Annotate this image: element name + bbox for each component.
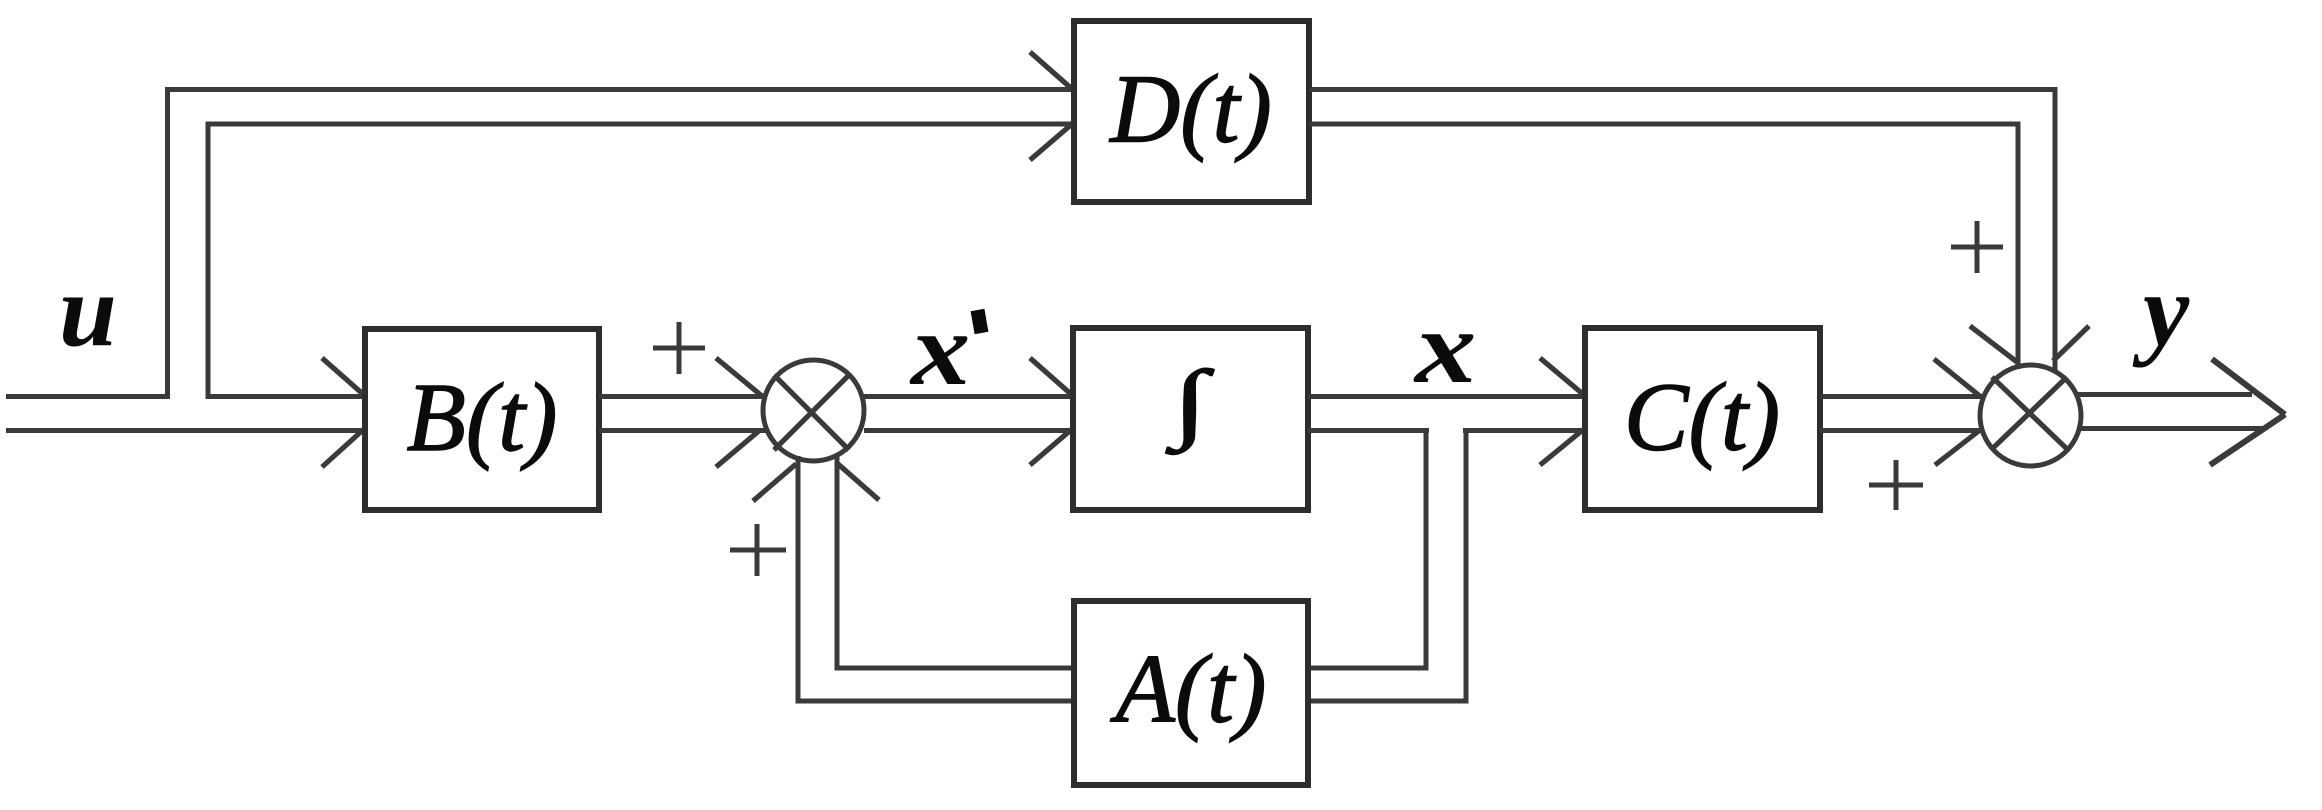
arrowhead into D(t) — [1030, 52, 1072, 160]
arrowhead into C(t) — [1540, 358, 1584, 465]
summing junction S1 (circle with X) — [763, 360, 864, 461]
wire: feedback branch down from x to A(t) input — [1311, 429, 1466, 701]
svg-text:C(t): C(t) — [1624, 364, 1780, 471]
block C(t) — [1585, 328, 1820, 510]
block D(t) — [1074, 21, 1309, 202]
plus sign at S2 top input — [1951, 221, 2003, 273]
arrowhead into S2 from left (C path) — [1934, 359, 1981, 465]
wire: integrator output to C(t) — [1308, 397, 1585, 431]
arrowhead: output y big open arrow — [2210, 359, 2285, 465]
wire: S1 output to integrator — [864, 397, 1073, 431]
arrowhead into S1 from below (A path) — [753, 464, 879, 501]
svg-text:y: y — [2132, 253, 2190, 368]
svg-text:∫: ∫ — [1166, 352, 1215, 455]
summing junction S2 (circle with X) — [1980, 365, 2081, 466]
svg-text:x: x — [909, 293, 970, 408]
wire: u input double line (main path into B(t)) — [6, 397, 365, 431]
plus sign at S1 left input — [653, 322, 705, 374]
block B(t) — [365, 329, 599, 510]
label x' — [909, 293, 982, 408]
svg-text:A(t): A(t) — [1110, 636, 1267, 743]
arrowhead into integrator — [1030, 358, 1072, 465]
arrowhead into S2 from top (D path) — [1970, 326, 2089, 362]
arrowhead into B(t) — [322, 358, 364, 467]
wire: S2 output y — [2077, 395, 2266, 429]
wire: branch from u up to D(t) — [168, 90, 1072, 400]
svg-text:B(t): B(t) — [407, 364, 558, 471]
wire: A(t) output up into S1 bottom — [798, 454, 1071, 701]
arrowhead into S1 from left (B path) — [716, 358, 762, 467]
plus sign at S2 left input — [1869, 460, 1923, 510]
block A(t) — [1074, 601, 1308, 785]
wire: D(t) output to summing junction S2 — [1310, 90, 2055, 373]
wire: C(t) output to summing junction S2 — [1820, 397, 1984, 431]
svg-text:D(t): D(t) — [1108, 56, 1272, 163]
wire: B(t) output to summing junction S1 — [599, 397, 766, 431]
plus sign at S1 bottom input — [730, 524, 786, 576]
svg-text:u: u — [59, 254, 117, 369]
block integrator — [1073, 328, 1308, 510]
svg-text:x: x — [1413, 290, 1477, 405]
